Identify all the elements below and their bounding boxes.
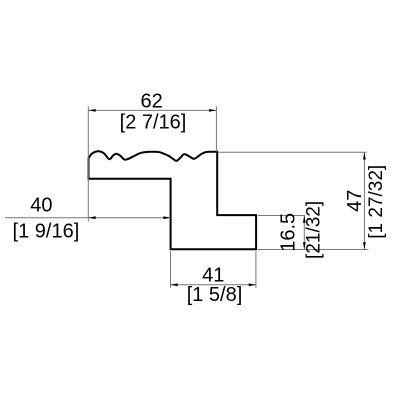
- arrow 47 top: [363, 152, 366, 159]
- arrow 16.5 bottom: [303, 242, 306, 249]
- svg-text:16.5: 16.5: [278, 213, 300, 252]
- arrow 47 bottom: [363, 242, 366, 249]
- svg-text:62: 62: [140, 90, 162, 112]
- extension line left shared by 62 and 40 dims: [87, 106, 89, 221]
- arrow 62 left: [89, 109, 96, 112]
- svg-text:[1 9/16]: [1 9/16]: [13, 221, 80, 243]
- arrow 41 left: [171, 283, 178, 286]
- moulding profile outline: [89, 151, 257, 249]
- arrow 62 right: [209, 109, 216, 112]
- svg-text:40: 40: [30, 194, 52, 216]
- extension line bottom shared by 16.5 and 47 dims: [258, 249, 368, 251]
- svg-text:[1 27/32]: [1 27/32]: [366, 165, 387, 239]
- dimension line 16.5: [303, 216, 305, 250]
- dimension line 62: [89, 109, 217, 111]
- arrow 40 right: [163, 216, 170, 219]
- svg-text:[1 5/8]: [1 5/8]: [187, 284, 243, 306]
- extension line bottom right for 41 dim: [255, 251, 257, 288]
- extension line bottom left for 41 dim: [170, 251, 172, 288]
- dimension line 47: [363, 152, 365, 249]
- arrow 40 left: [89, 216, 96, 219]
- extension line top right for 62 dim: [215, 106, 217, 151]
- svg-text:[2 7/16]: [2 7/16]: [120, 111, 187, 133]
- extension line 47 top: [218, 151, 366, 153]
- svg-text:[21/32]: [21/32]: [303, 201, 324, 259]
- arrow 16.5 top: [303, 216, 306, 223]
- arrow 41 right: [249, 283, 256, 286]
- dimension line 41: [171, 284, 256, 286]
- dimension line 40 with left tail: [5, 217, 171, 219]
- extension line 16.5 top: [258, 215, 305, 217]
- svg-text:47: 47: [344, 190, 366, 212]
